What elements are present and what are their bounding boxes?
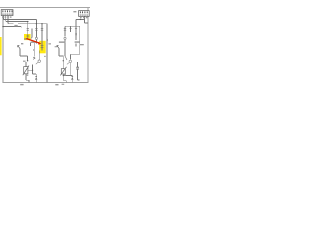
junction x32.6 y70.2 [32, 70, 33, 71]
label right of Q4 [44, 56, 46, 57]
transistor Q4 base diagonal [36, 62, 38, 64]
junction x27.8 y21.6 [27, 21, 28, 22]
diode D4 bottom right [71, 76, 73, 79]
sheet top border [0, 7, 90, 9]
connector J2 [73, 11, 89, 19]
label JP5 [14, 25, 17, 27]
trimmer R1 box [23, 66, 29, 76]
wire vertical x27.8 [27, 22, 29, 35]
tick x70.6 [70, 27, 72, 29]
connector J1 [1, 10, 13, 18]
label below trimmer R2 [64, 74, 66, 75]
trimmer R2 box [60, 67, 66, 76]
wire jog left x20 [19, 49, 21, 56]
wire trimmer R1 feed [25, 62, 27, 67]
stub x70.6 [70, 26, 72, 32]
sheet right border [87, 8, 89, 83]
pin dots J1 [2, 14, 13, 15]
junction x3 y26.6 [2, 26, 3, 27]
wire vertical x36.4 with diode D1 gap [35, 19, 37, 37]
wire y75.6 branch [63, 75, 72, 77]
test arrow right [57, 45, 59, 48]
transistor Q4 circle [38, 60, 41, 63]
Q4 emitter marks [33, 57, 35, 60]
transistor Q2 circle [35, 37, 37, 39]
highlight patch 1 (Q1 area) [24, 34, 31, 40]
wire vertical x65 with diode D2 gap [64, 26, 66, 36]
label below trimmer R1 [26, 75, 29, 76]
diode D1 ticks [35, 28, 37, 30]
highlight patch 2 (Q2 area) [39, 41, 46, 54]
junction x63.3 y75.6 [63, 75, 64, 76]
wire base feed x34.2 [33, 42, 35, 57]
label near x79.8 [80, 44, 84, 45]
wire vertical x76 [75, 26, 77, 40]
tick x76 [75, 27, 77, 29]
wire long vertical x47 [46, 24, 48, 83]
x65 jog to Q5 [65, 56, 67, 60]
transistor Q5 circle [69, 60, 72, 63]
label right of x47 [48, 43, 51, 44]
label Q3 value [59, 41, 65, 43]
red annotation arrow [26, 39, 41, 45]
label J2 [73, 11, 76, 12]
label bottom right below border [62, 84, 65, 85]
wire vertical x42 collector of Q2 [41, 24, 43, 43]
wire stub x30.6 [30, 43, 32, 47]
highlight strip left edge [0, 37, 2, 55]
junction x42 y23.7 [41, 23, 42, 24]
label bottom left below border [20, 84, 23, 85]
sheet left border [2, 16, 4, 83]
label bottom middle below border [55, 84, 58, 85]
label JP6 [21, 43, 23, 44]
transistor Q5 base diagonal [67, 63, 69, 65]
marks on x76 [75, 33, 76, 35]
wire x42 through yellow [41, 43, 43, 51]
wire bus from connector J1 [4, 18, 37, 20]
diode D2 ticks [64, 28, 66, 30]
diode ticks x27.8 [27, 28, 29, 30]
junction x36.4 y23.7 [36, 23, 37, 24]
pin number labels J2 [80, 17, 87, 18]
wire emitter drop x70.3 [69, 63, 71, 76]
wire jog x59 [58, 49, 60, 56]
pin number labels J1 [2, 16, 12, 17]
wire emitter drop x39.3 [38, 51, 40, 60]
wire vertical x79.8 with jog [79, 26, 81, 54]
wire stubs below J1 [3, 16, 5, 20]
component marks inside patch 2 [41, 45, 44, 47]
wire x32.6 branch [28, 69, 33, 71]
sheet bottom border [3, 82, 88, 84]
wire cap branch x77.5 [77, 62, 79, 67]
pin dots J2 [79, 14, 88, 15]
label x74 value [75, 41, 80, 43]
wire trimmer R2 feed [62, 61, 64, 69]
test arrow left [18, 45, 20, 48]
capacitor C1 ticks [76, 67, 79, 69]
component marks inside patch 1 [26, 35, 29, 40]
label under x36 [31, 41, 36, 43]
junction x27.6 y60.8 [27, 60, 28, 61]
label on patch 1 [24, 38, 27, 39]
label near arrow right [55, 46, 57, 47]
transistor Q3 circle [64, 37, 66, 39]
junction x63.3 y60.8 [63, 60, 64, 61]
diode D3 bottom left [35, 76, 37, 79]
wire bus from connector J2 [76, 18, 84, 20]
diode ticks x42 [41, 28, 43, 30]
wire vertical x32 [31, 29, 33, 38]
label above trimmer R1 [23, 61, 26, 62]
junction x83 y19.4 [80, 19, 81, 20]
